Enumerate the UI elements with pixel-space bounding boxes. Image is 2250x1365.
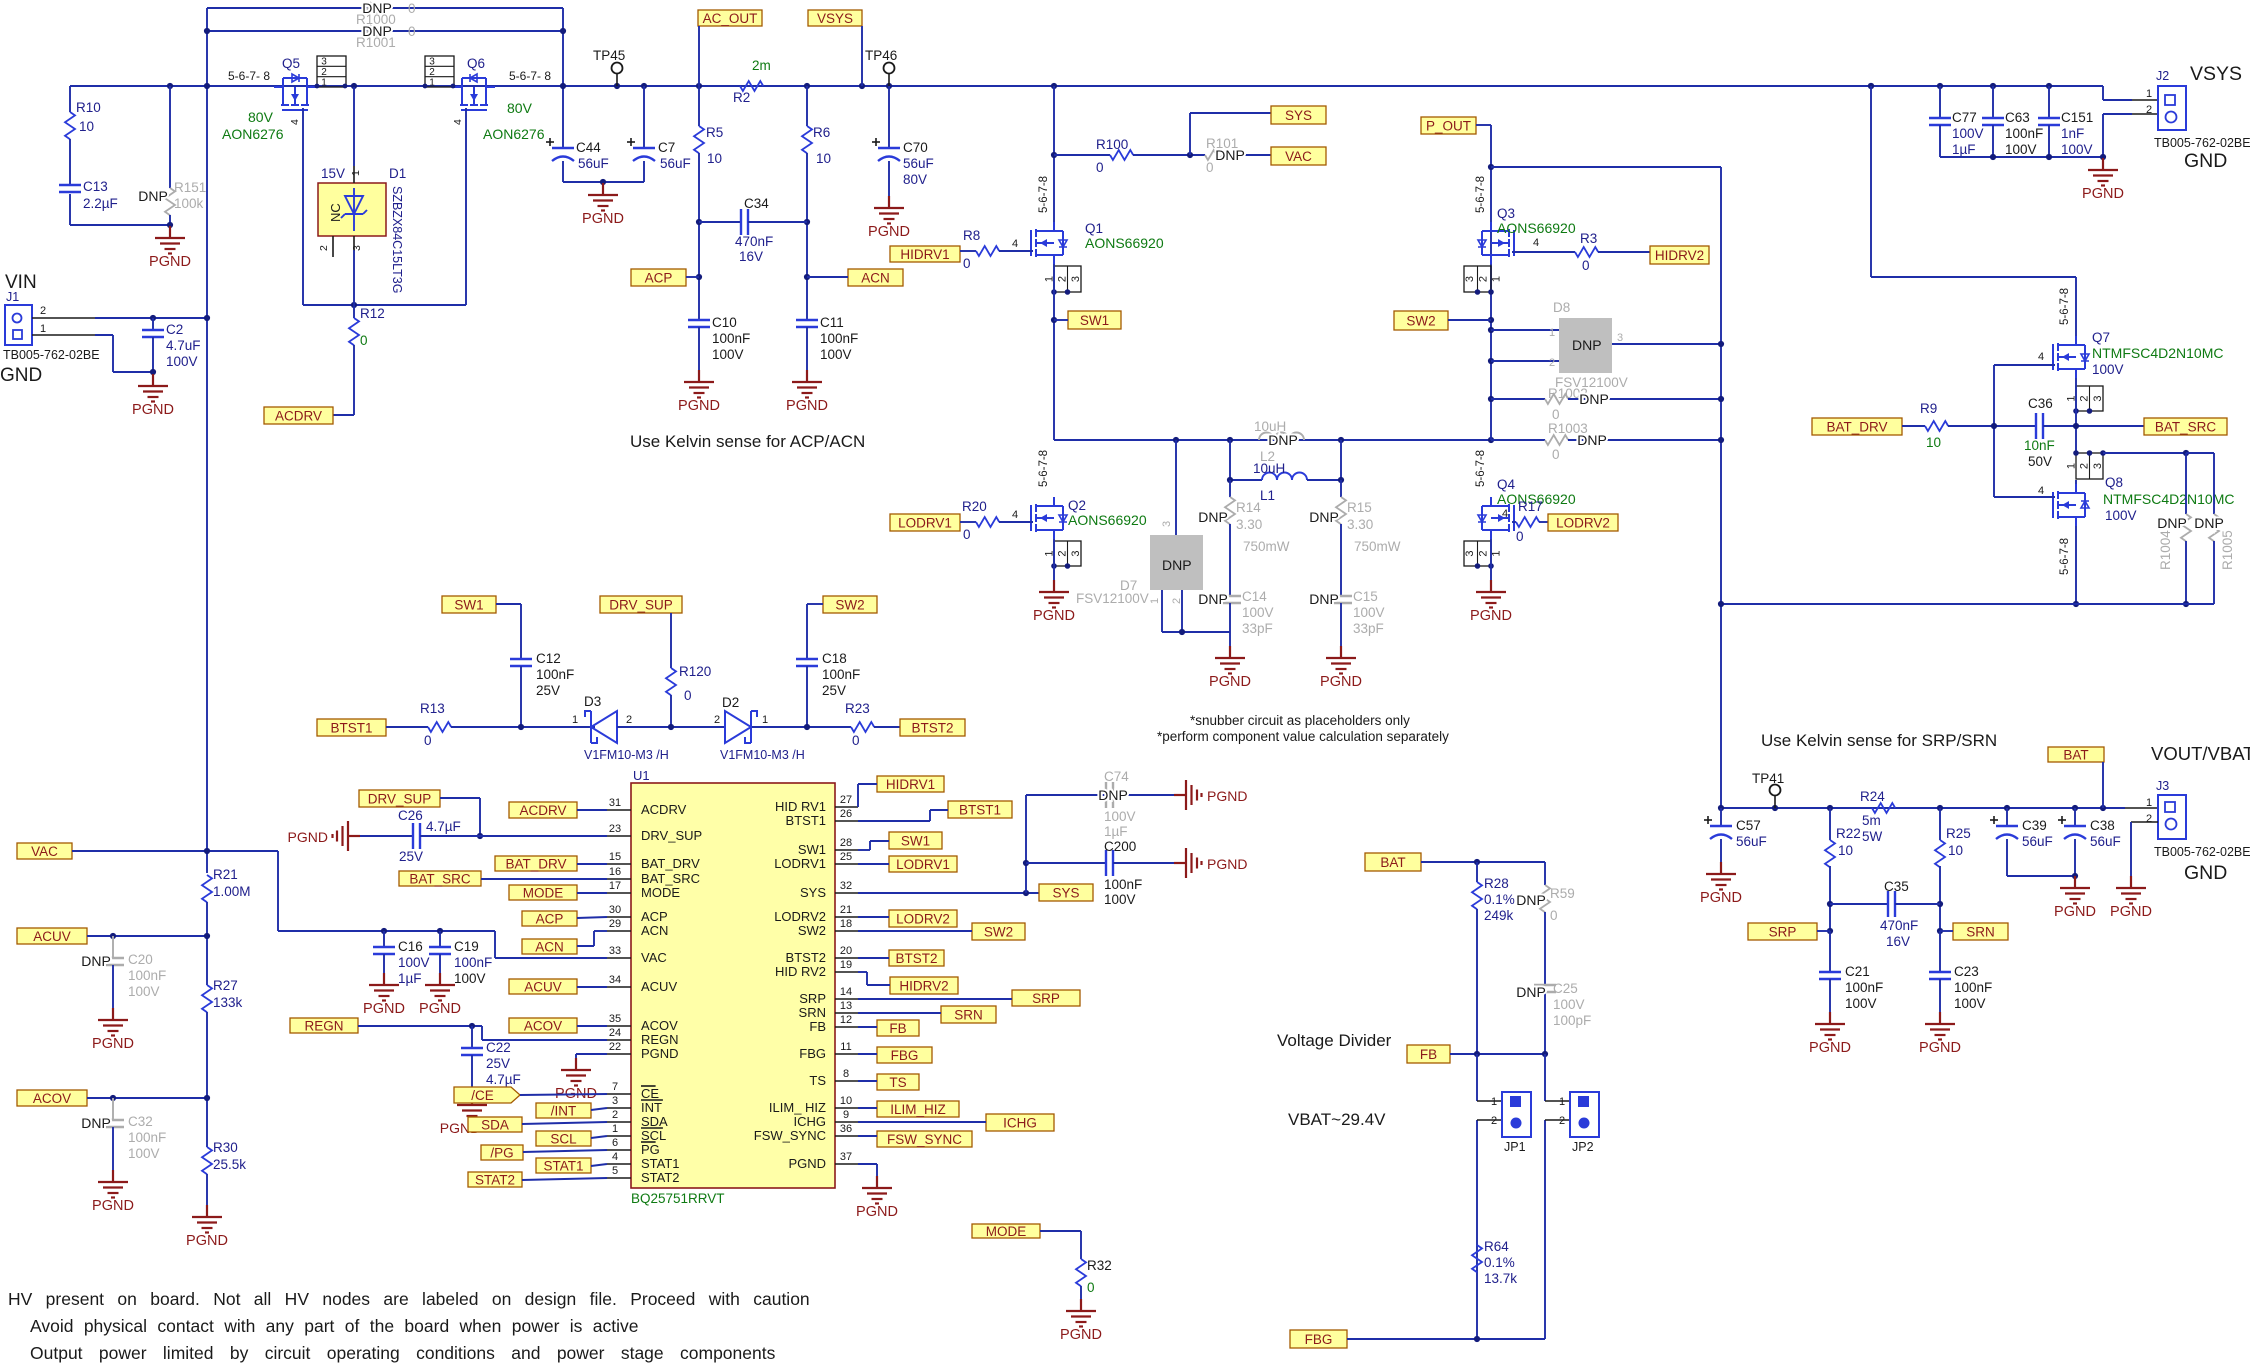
svg-text:C34: C34 — [744, 196, 769, 211]
svg-text:R27: R27 — [213, 978, 238, 993]
svg-text:2: 2 — [612, 1109, 618, 1121]
svg-text:JP1: JP1 — [1504, 1140, 1526, 1154]
svg-text:VAC: VAC — [1285, 149, 1312, 164]
svg-text:C26: C26 — [398, 808, 423, 823]
svg-text:750mW: 750mW — [1243, 539, 1290, 554]
svg-text:SCL: SCL — [641, 1128, 666, 1143]
svg-text:4: 4 — [1533, 237, 1539, 249]
svg-text:100nF: 100nF — [454, 955, 492, 970]
svg-text:10nF: 10nF — [2024, 438, 2055, 453]
svg-text:V1FM10-M3 /H: V1FM10-M3 /H — [720, 748, 805, 762]
svg-text:ICHG: ICHG — [794, 1114, 827, 1129]
svg-text:VAC: VAC — [31, 844, 58, 859]
svg-text:/CE: /CE — [471, 1088, 494, 1103]
svg-text:1: 1 — [429, 77, 435, 88]
svg-text:ACUV: ACUV — [33, 929, 71, 944]
svg-text:10uH: 10uH — [1253, 461, 1285, 476]
svg-text:R6: R6 — [813, 125, 830, 140]
svg-text:2: 2 — [318, 245, 330, 251]
svg-text:5-6-7- 8: 5-6-7- 8 — [228, 69, 270, 83]
svg-text:SRN: SRN — [954, 1007, 983, 1022]
svg-text:GND: GND — [0, 365, 42, 386]
svg-text:REGN: REGN — [304, 1018, 343, 1033]
svg-text:HIDRV2: HIDRV2 — [899, 978, 948, 993]
svg-text:0: 0 — [1206, 160, 1214, 175]
svg-text:SRN: SRN — [799, 1005, 826, 1020]
svg-text:PGND: PGND — [132, 402, 174, 418]
svg-text:25V: 25V — [536, 683, 560, 698]
svg-text:3: 3 — [351, 245, 363, 251]
svg-text:1: 1 — [1149, 598, 1161, 604]
svg-text:PGND: PGND — [288, 829, 328, 845]
svg-text:SW1: SW1 — [798, 842, 826, 857]
svg-text:FB: FB — [1420, 1047, 1437, 1062]
svg-text:ACP: ACP — [536, 911, 564, 926]
svg-text:17: 17 — [609, 880, 621, 892]
svg-text:100V: 100V — [2005, 142, 2037, 157]
svg-text:FBG: FBG — [1305, 1332, 1333, 1347]
svg-text:1: 1 — [2146, 88, 2152, 100]
svg-text:PGND: PGND — [186, 1233, 228, 1249]
svg-text:100V: 100V — [2092, 362, 2124, 377]
svg-text:AC_OUT: AC_OUT — [703, 11, 758, 26]
svg-text:C44: C44 — [576, 140, 601, 155]
svg-text:PGND: PGND — [1700, 890, 1742, 906]
svg-text:SRN: SRN — [1966, 924, 1995, 939]
svg-text:25.5k: 25.5k — [213, 1157, 246, 1172]
svg-text:ACOV: ACOV — [641, 1018, 678, 1033]
svg-text:ACOV: ACOV — [33, 1091, 71, 1106]
svg-text:50V: 50V — [2028, 454, 2052, 469]
svg-text:R2: R2 — [733, 90, 750, 105]
svg-text:R28: R28 — [1484, 876, 1509, 891]
svg-text:C11: C11 — [820, 315, 844, 330]
svg-text:25V: 25V — [399, 849, 423, 864]
svg-text:DRV_SUP: DRV_SUP — [641, 828, 702, 843]
svg-text:ILIM_HIZ: ILIM_HIZ — [890, 1102, 946, 1117]
svg-text:28: 28 — [840, 837, 852, 849]
svg-text:TB005-762-02BE: TB005-762-02BE — [3, 348, 100, 362]
svg-text:0: 0 — [408, 24, 416, 39]
svg-text:BQ25751RRVT: BQ25751RRVT — [631, 1191, 725, 1206]
svg-text:4: 4 — [2038, 485, 2044, 497]
svg-text:/INT: /INT — [551, 1103, 577, 1118]
svg-text:PGND: PGND — [2054, 904, 2096, 920]
svg-text:R120: R120 — [679, 664, 711, 679]
svg-text:100V: 100V — [1104, 892, 1136, 907]
svg-text:1: 1 — [1491, 1096, 1497, 1108]
svg-text:SRP: SRP — [1769, 924, 1797, 939]
svg-text:P_OUT: P_OUT — [1426, 118, 1471, 133]
svg-text:DNP: DNP — [1572, 337, 1602, 353]
svg-text:100V: 100V — [128, 1146, 160, 1161]
svg-text:R64: R64 — [1484, 1239, 1509, 1254]
svg-text:ACN: ACN — [535, 939, 564, 954]
svg-text:R25: R25 — [1946, 826, 1971, 841]
svg-text:5W: 5W — [1862, 829, 1883, 844]
svg-text:12: 12 — [840, 1014, 852, 1026]
svg-text:PGND: PGND — [2110, 904, 2152, 920]
svg-text:C74: C74 — [1104, 769, 1129, 784]
svg-text:PGND: PGND — [2082, 186, 2124, 202]
svg-text:R100: R100 — [1096, 137, 1128, 152]
svg-text:LODRV1: LODRV1 — [898, 515, 952, 530]
svg-text:Q5: Q5 — [282, 56, 300, 71]
svg-text:1: 1 — [2066, 463, 2078, 469]
svg-text:3: 3 — [2092, 463, 2104, 469]
svg-text:0.1%: 0.1% — [1484, 1255, 1515, 1270]
svg-text:4: 4 — [2038, 351, 2044, 363]
svg-text:Q8: Q8 — [2105, 475, 2123, 490]
svg-text:R59: R59 — [1550, 886, 1575, 901]
svg-text:470nF: 470nF — [735, 234, 773, 249]
svg-text:3: 3 — [1464, 550, 1476, 556]
svg-text:16V: 16V — [1886, 934, 1910, 949]
svg-text:14: 14 — [840, 986, 852, 998]
svg-text:C14: C14 — [1242, 589, 1267, 604]
svg-text:FSW_SYNC: FSW_SYNC — [887, 1132, 962, 1147]
svg-text:0: 0 — [1550, 908, 1558, 923]
svg-text:Q7: Q7 — [2092, 330, 2110, 345]
svg-text:PGND: PGND — [868, 224, 910, 240]
svg-text:PGND: PGND — [582, 211, 624, 227]
svg-text:16: 16 — [609, 866, 621, 878]
svg-text:PGND: PGND — [92, 1036, 134, 1052]
svg-text:100V: 100V — [1242, 605, 1274, 620]
svg-text:STAT2: STAT2 — [641, 1170, 680, 1185]
svg-text:10: 10 — [1948, 843, 1963, 858]
svg-text:DNP: DNP — [1162, 557, 1192, 573]
svg-text:J2: J2 — [2156, 69, 2169, 83]
svg-text:100V: 100V — [2061, 142, 2093, 157]
svg-text:33pF: 33pF — [1353, 621, 1384, 636]
svg-text:0: 0 — [1582, 258, 1590, 273]
svg-text:C18: C18 — [822, 651, 847, 666]
svg-text:VAC: VAC — [641, 950, 667, 965]
svg-text:DNP: DNP — [2157, 515, 2187, 531]
svg-text:VSYS: VSYS — [2190, 63, 2242, 85]
svg-text:Avoid physical contact with an: Avoid physical contact with any part of … — [30, 1316, 638, 1336]
svg-text:0: 0 — [684, 688, 692, 703]
svg-text:5m: 5m — [1862, 813, 1881, 828]
svg-text:R5: R5 — [706, 125, 723, 140]
svg-text:2.2µF: 2.2µF — [83, 196, 118, 211]
svg-text:LODRV2: LODRV2 — [774, 909, 826, 924]
svg-text:32: 32 — [840, 880, 852, 892]
svg-text:100V: 100V — [454, 971, 486, 986]
svg-text:100nF: 100nF — [2005, 126, 2043, 141]
svg-text:3: 3 — [1161, 521, 1173, 527]
svg-text:C35: C35 — [1884, 879, 1909, 894]
svg-text:56uF: 56uF — [578, 156, 609, 171]
svg-text:FBG: FBG — [891, 1048, 919, 1063]
svg-text:AONS66920: AONS66920 — [1497, 220, 1576, 236]
svg-text:34: 34 — [609, 974, 621, 986]
svg-text:R23: R23 — [845, 701, 870, 716]
svg-text:SYS: SYS — [800, 885, 826, 900]
svg-text:0: 0 — [1552, 447, 1560, 462]
svg-text:PGND: PGND — [786, 398, 828, 414]
svg-text:R8: R8 — [963, 228, 980, 243]
svg-text:FBG: FBG — [799, 1046, 826, 1061]
svg-text:BAT: BAT — [2063, 747, 2088, 762]
svg-text:R24: R24 — [1860, 789, 1885, 804]
svg-text:3: 3 — [1464, 276, 1476, 282]
svg-text:BTST1: BTST1 — [959, 802, 1001, 817]
svg-text:SYS: SYS — [1052, 885, 1079, 900]
svg-text:4: 4 — [1012, 509, 1018, 521]
svg-text:13: 13 — [840, 1000, 852, 1012]
svg-text:D8: D8 — [1553, 300, 1570, 315]
svg-text:36: 36 — [840, 1123, 852, 1135]
svg-text:PGND: PGND — [1207, 788, 1247, 804]
svg-text:DNP: DNP — [1309, 509, 1339, 525]
svg-text:10: 10 — [1838, 843, 1853, 858]
svg-text:5-6-7-8: 5-6-7-8 — [2059, 538, 2071, 575]
svg-text:2: 2 — [1057, 550, 1069, 556]
svg-text:100V: 100V — [398, 955, 430, 970]
svg-text:100nF: 100nF — [1104, 877, 1142, 892]
svg-text:R14: R14 — [1236, 500, 1261, 515]
svg-text:AONS66920: AONS66920 — [1085, 235, 1164, 251]
svg-text:SW2: SW2 — [984, 924, 1013, 939]
svg-text:STAT2: STAT2 — [475, 1172, 515, 1187]
svg-text:100V: 100V — [128, 984, 160, 999]
svg-text:SYS: SYS — [1285, 108, 1312, 123]
svg-text:PGND: PGND — [92, 1198, 134, 1214]
svg-text:L1: L1 — [1260, 488, 1275, 503]
svg-text:ACP: ACP — [645, 270, 673, 285]
svg-text:Q6: Q6 — [467, 56, 485, 71]
svg-text:1: 1 — [1491, 550, 1503, 556]
svg-text:ILIM_ HIZ: ILIM_ HIZ — [769, 1100, 826, 1115]
svg-text:30: 30 — [609, 904, 621, 916]
svg-text:2m: 2m — [752, 58, 771, 73]
svg-text:C70: C70 — [903, 140, 928, 155]
svg-text:TP46: TP46 — [865, 48, 897, 63]
svg-text:HIDRV1: HIDRV1 — [886, 777, 935, 792]
svg-text:U1: U1 — [633, 768, 650, 783]
svg-text:C12: C12 — [536, 651, 561, 666]
svg-text:5-6-7-8: 5-6-7-8 — [1038, 450, 1050, 487]
svg-text:4: 4 — [1012, 238, 1018, 250]
svg-text:100V: 100V — [1353, 605, 1385, 620]
svg-text:33: 33 — [609, 945, 621, 957]
svg-text:Q3: Q3 — [1497, 206, 1515, 221]
svg-text:MODE: MODE — [523, 885, 564, 900]
svg-text:TB005-762-02BE: TB005-762-02BE — [2154, 845, 2250, 859]
svg-text:0: 0 — [852, 733, 860, 748]
svg-text:BAT: BAT — [1380, 855, 1405, 870]
svg-text:SDA: SDA — [641, 1114, 668, 1129]
svg-text:0: 0 — [1087, 1280, 1095, 1295]
svg-text:R32: R32 — [1087, 1258, 1112, 1273]
svg-text:FB: FB — [809, 1019, 826, 1034]
svg-text:3: 3 — [1617, 332, 1623, 344]
svg-text:100nF: 100nF — [128, 1130, 166, 1145]
svg-text:SDA: SDA — [481, 1117, 509, 1132]
svg-text:LODRV1: LODRV1 — [774, 856, 826, 871]
svg-text:BTST1: BTST1 — [786, 813, 826, 828]
svg-text:VOUT/VBAT: VOUT/VBAT — [2151, 743, 2250, 764]
svg-text:PGND: PGND — [678, 398, 720, 414]
svg-text:56uF: 56uF — [903, 156, 934, 171]
svg-text:V1FM10-M3 /H: V1FM10-M3 /H — [584, 748, 669, 762]
svg-text:PGND: PGND — [1207, 856, 1247, 872]
svg-text:PGND: PGND — [1470, 608, 1512, 624]
svg-text:1nF: 1nF — [2061, 126, 2084, 141]
svg-text:3: 3 — [612, 1095, 618, 1107]
svg-text:10: 10 — [707, 151, 722, 166]
svg-text:GND: GND — [2184, 862, 2227, 884]
svg-text:R17: R17 — [1518, 499, 1543, 514]
svg-text:29: 29 — [609, 918, 621, 930]
svg-text:C57: C57 — [1736, 818, 1761, 833]
svg-text:249k: 249k — [1484, 908, 1514, 923]
svg-text:2: 2 — [1549, 357, 1555, 369]
svg-text:PGND: PGND — [363, 1001, 405, 1017]
svg-text:22: 22 — [609, 1041, 621, 1053]
svg-text:23: 23 — [609, 823, 621, 835]
svg-text:0: 0 — [963, 256, 971, 271]
svg-text:10: 10 — [816, 151, 831, 166]
svg-text:*snubber circuit as placeholde: *snubber circuit as placeholders only — [1190, 713, 1410, 728]
svg-text:BTST2: BTST2 — [786, 950, 826, 965]
svg-text:PGND: PGND — [1919, 1040, 1961, 1056]
svg-text:0: 0 — [424, 733, 432, 748]
svg-text:HIDRV1: HIDRV1 — [900, 247, 949, 262]
svg-text:4.7µF: 4.7µF — [486, 1072, 521, 1087]
svg-text:1µF: 1µF — [1952, 142, 1976, 157]
svg-text:R9: R9 — [1920, 401, 1937, 416]
svg-text:9: 9 — [843, 1109, 849, 1121]
svg-text:37: 37 — [840, 1151, 852, 1163]
svg-text:21: 21 — [840, 904, 852, 916]
svg-text:SCL: SCL — [550, 1131, 577, 1146]
svg-text:BAT_DRV: BAT_DRV — [1826, 419, 1887, 434]
svg-text:PGND: PGND — [641, 1046, 679, 1061]
svg-text:MODE: MODE — [986, 1224, 1027, 1239]
svg-text:STAT1: STAT1 — [641, 1156, 680, 1171]
svg-text:SRP: SRP — [1032, 991, 1060, 1006]
svg-text:FSV12100V: FSV12100V — [1076, 591, 1149, 606]
svg-text:DNP: DNP — [1579, 391, 1609, 407]
svg-text:100V: 100V — [1954, 996, 1986, 1011]
svg-text:R1004: R1004 — [2158, 530, 2173, 570]
svg-text:BTST2: BTST2 — [911, 720, 953, 735]
svg-text:SZBZX84C15LT3G: SZBZX84C15LT3G — [390, 186, 404, 293]
svg-text:C63: C63 — [2005, 110, 2030, 125]
svg-text:C10: C10 — [712, 315, 737, 330]
svg-text:100nF: 100nF — [820, 331, 858, 346]
svg-text:PGND: PGND — [149, 254, 191, 270]
svg-text:R30: R30 — [213, 1140, 238, 1155]
svg-text:R10: R10 — [76, 100, 101, 115]
svg-text:HID RV2: HID RV2 — [775, 964, 826, 979]
svg-text:DRV_SUP: DRV_SUP — [368, 791, 432, 806]
svg-text:PGND: PGND — [856, 1204, 898, 1220]
svg-text:100V: 100V — [712, 347, 744, 362]
svg-text:ACDRV: ACDRV — [519, 803, 566, 818]
svg-text:PGND: PGND — [1033, 608, 1075, 624]
svg-text:PGND: PGND — [788, 1156, 826, 1171]
svg-text:R151: R151 — [174, 180, 206, 195]
svg-text:NTMFSC4D2N10MC: NTMFSC4D2N10MC — [2092, 345, 2223, 361]
svg-text:4: 4 — [452, 119, 464, 125]
svg-text:5-6-7-8: 5-6-7-8 — [1475, 176, 1487, 213]
svg-text:16V: 16V — [739, 249, 763, 264]
svg-text:56uF: 56uF — [2022, 834, 2053, 849]
svg-text:56uF: 56uF — [660, 156, 691, 171]
svg-text:1: 1 — [2146, 797, 2152, 809]
svg-text:Q1: Q1 — [1085, 221, 1103, 236]
svg-text:DNP: DNP — [81, 1115, 111, 1131]
svg-text:56uF: 56uF — [2090, 834, 2121, 849]
svg-text:5-6-7-8: 5-6-7-8 — [2059, 288, 2071, 325]
svg-text:100V: 100V — [820, 347, 852, 362]
svg-text:100k: 100k — [174, 196, 204, 211]
svg-text:31: 31 — [609, 797, 621, 809]
svg-text:DRV_SUP: DRV_SUP — [609, 597, 673, 612]
svg-text:2: 2 — [2146, 813, 2152, 825]
svg-text:0: 0 — [1516, 529, 1524, 544]
svg-text:3: 3 — [2092, 395, 2104, 401]
svg-text:100nF: 100nF — [712, 331, 750, 346]
svg-text:35: 35 — [609, 1013, 621, 1025]
svg-text:C23: C23 — [1954, 964, 1979, 979]
svg-text:100V: 100V — [166, 354, 198, 369]
svg-text:DNP: DNP — [1309, 591, 1339, 607]
svg-text:BTST1: BTST1 — [330, 720, 372, 735]
svg-text:AONS66920: AONS66920 — [1068, 512, 1147, 528]
svg-text:Use Kelvin sense for ACP/ACN: Use Kelvin sense for ACP/ACN — [630, 432, 865, 451]
svg-text:Q2: Q2 — [1068, 498, 1086, 513]
svg-text:DNP: DNP — [1198, 591, 1228, 607]
svg-text:2: 2 — [2146, 104, 2152, 116]
svg-text:1: 1 — [1559, 1096, 1565, 1108]
svg-text:0: 0 — [963, 527, 971, 542]
svg-text:STAT1: STAT1 — [543, 1158, 583, 1173]
svg-text:15V: 15V — [321, 166, 345, 181]
svg-text:5-6-7-8: 5-6-7-8 — [1038, 176, 1050, 213]
svg-text:1: 1 — [350, 170, 362, 176]
svg-text:100nF: 100nF — [536, 667, 574, 682]
svg-text:J1: J1 — [6, 290, 19, 304]
svg-text:ACUV: ACUV — [641, 979, 677, 994]
svg-text:100nF: 100nF — [1954, 980, 1992, 995]
svg-text:HIDRV2: HIDRV2 — [1655, 248, 1704, 263]
svg-text:C21: C21 — [1845, 964, 1870, 979]
svg-text:2: 2 — [1057, 276, 1069, 282]
svg-text:R101: R101 — [1206, 136, 1238, 151]
svg-text:PGND: PGND — [419, 1001, 461, 1017]
svg-text:MODE: MODE — [641, 885, 680, 900]
svg-text:56uF: 56uF — [1736, 834, 1767, 849]
svg-text:R1005: R1005 — [2220, 530, 2235, 570]
svg-text:80V: 80V — [507, 100, 533, 116]
svg-text:20: 20 — [840, 945, 852, 957]
svg-text:25: 25 — [840, 851, 852, 863]
svg-text:PGND: PGND — [1809, 1040, 1851, 1056]
svg-text:2: 2 — [2079, 395, 2091, 401]
svg-text:SW2: SW2 — [798, 923, 826, 938]
svg-text:R22: R22 — [1836, 826, 1861, 841]
svg-text:C7: C7 — [658, 140, 675, 155]
svg-text:C19: C19 — [454, 939, 479, 954]
svg-text:ICHG: ICHG — [1003, 1115, 1037, 1130]
svg-text:0.1%: 0.1% — [1484, 892, 1515, 907]
svg-text:HV present on board. Not all H: HV present on board. Not all HV nodes ar… — [8, 1289, 810, 1309]
